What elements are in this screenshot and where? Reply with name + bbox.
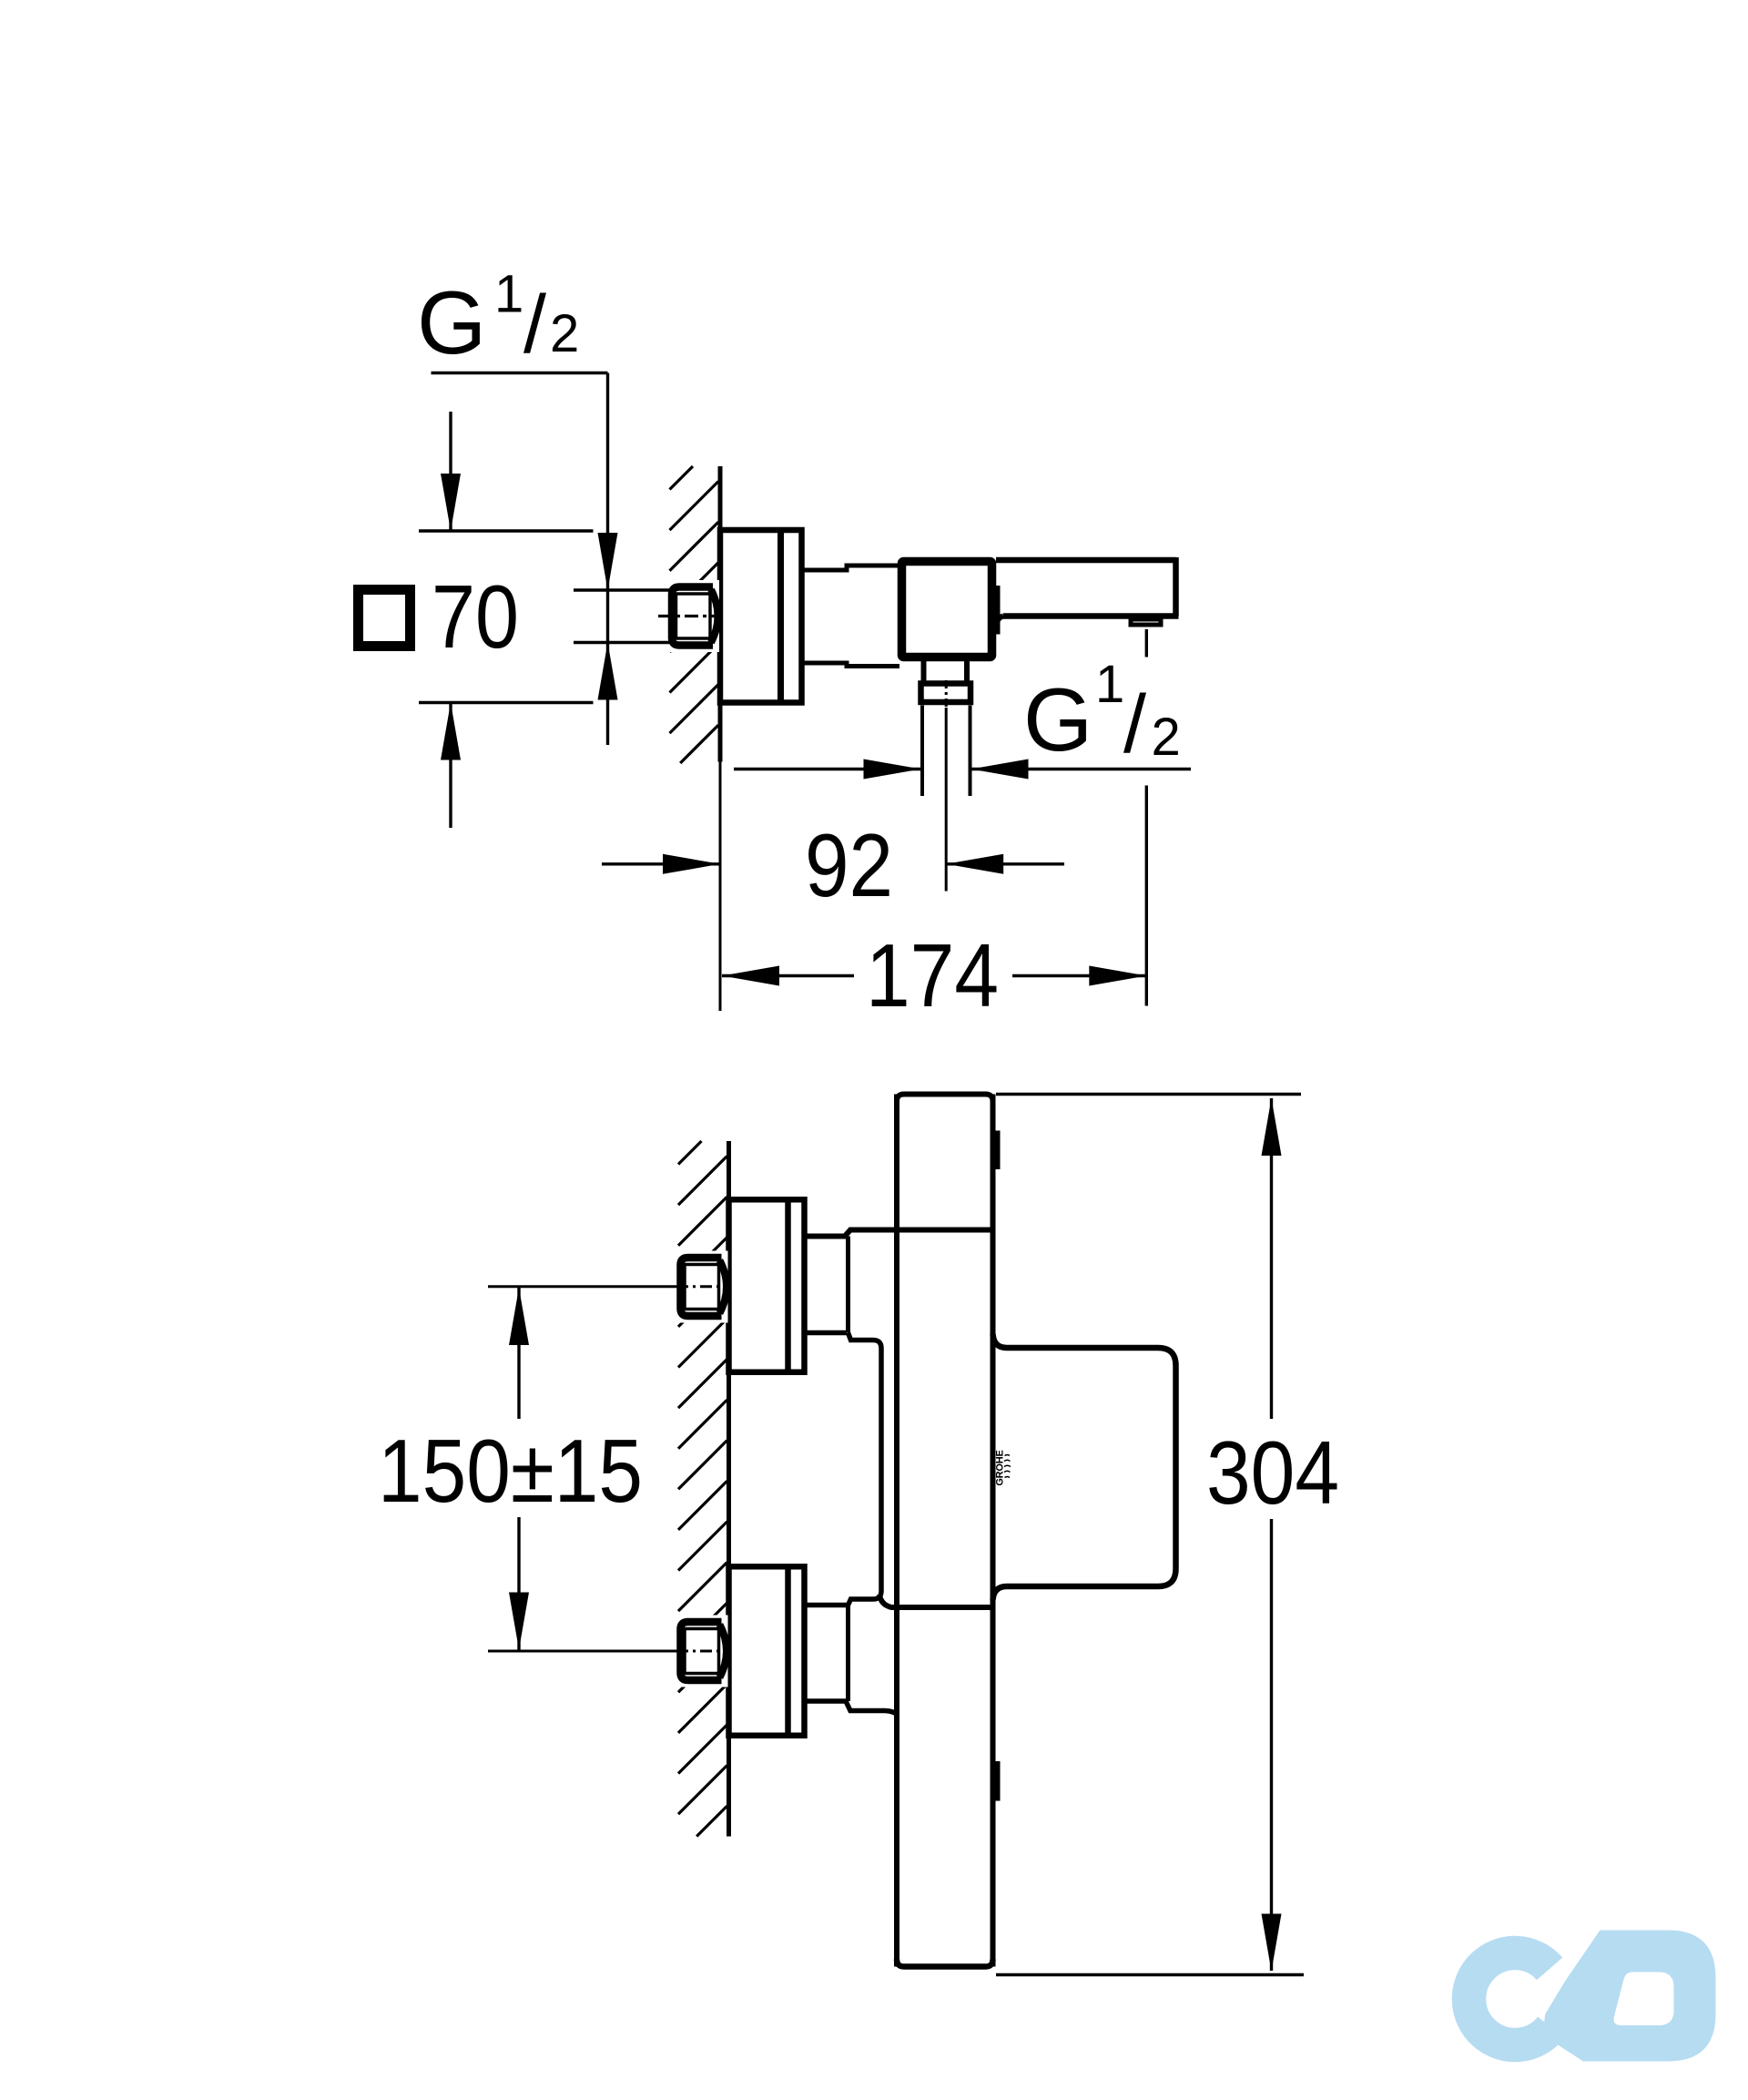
- svg-text:174: 174: [866, 925, 999, 1025]
- svg-text:150±15: 150±15: [378, 1421, 643, 1521]
- svg-text:GROHE: GROHE: [995, 1450, 1006, 1485]
- svg-text:G: G: [1023, 669, 1092, 770]
- svg-text:2: 2: [550, 304, 579, 363]
- svg-text:70: 70: [432, 566, 519, 667]
- svg-text:92: 92: [805, 815, 893, 915]
- svg-text:2: 2: [1152, 708, 1181, 767]
- svg-text:1: 1: [1095, 655, 1124, 714]
- svg-text:G: G: [417, 272, 486, 372]
- svg-text:/: /: [1123, 679, 1146, 770]
- svg-text:1: 1: [494, 265, 523, 324]
- svg-text:304: 304: [1206, 1422, 1339, 1523]
- svg-text:/: /: [523, 280, 546, 371]
